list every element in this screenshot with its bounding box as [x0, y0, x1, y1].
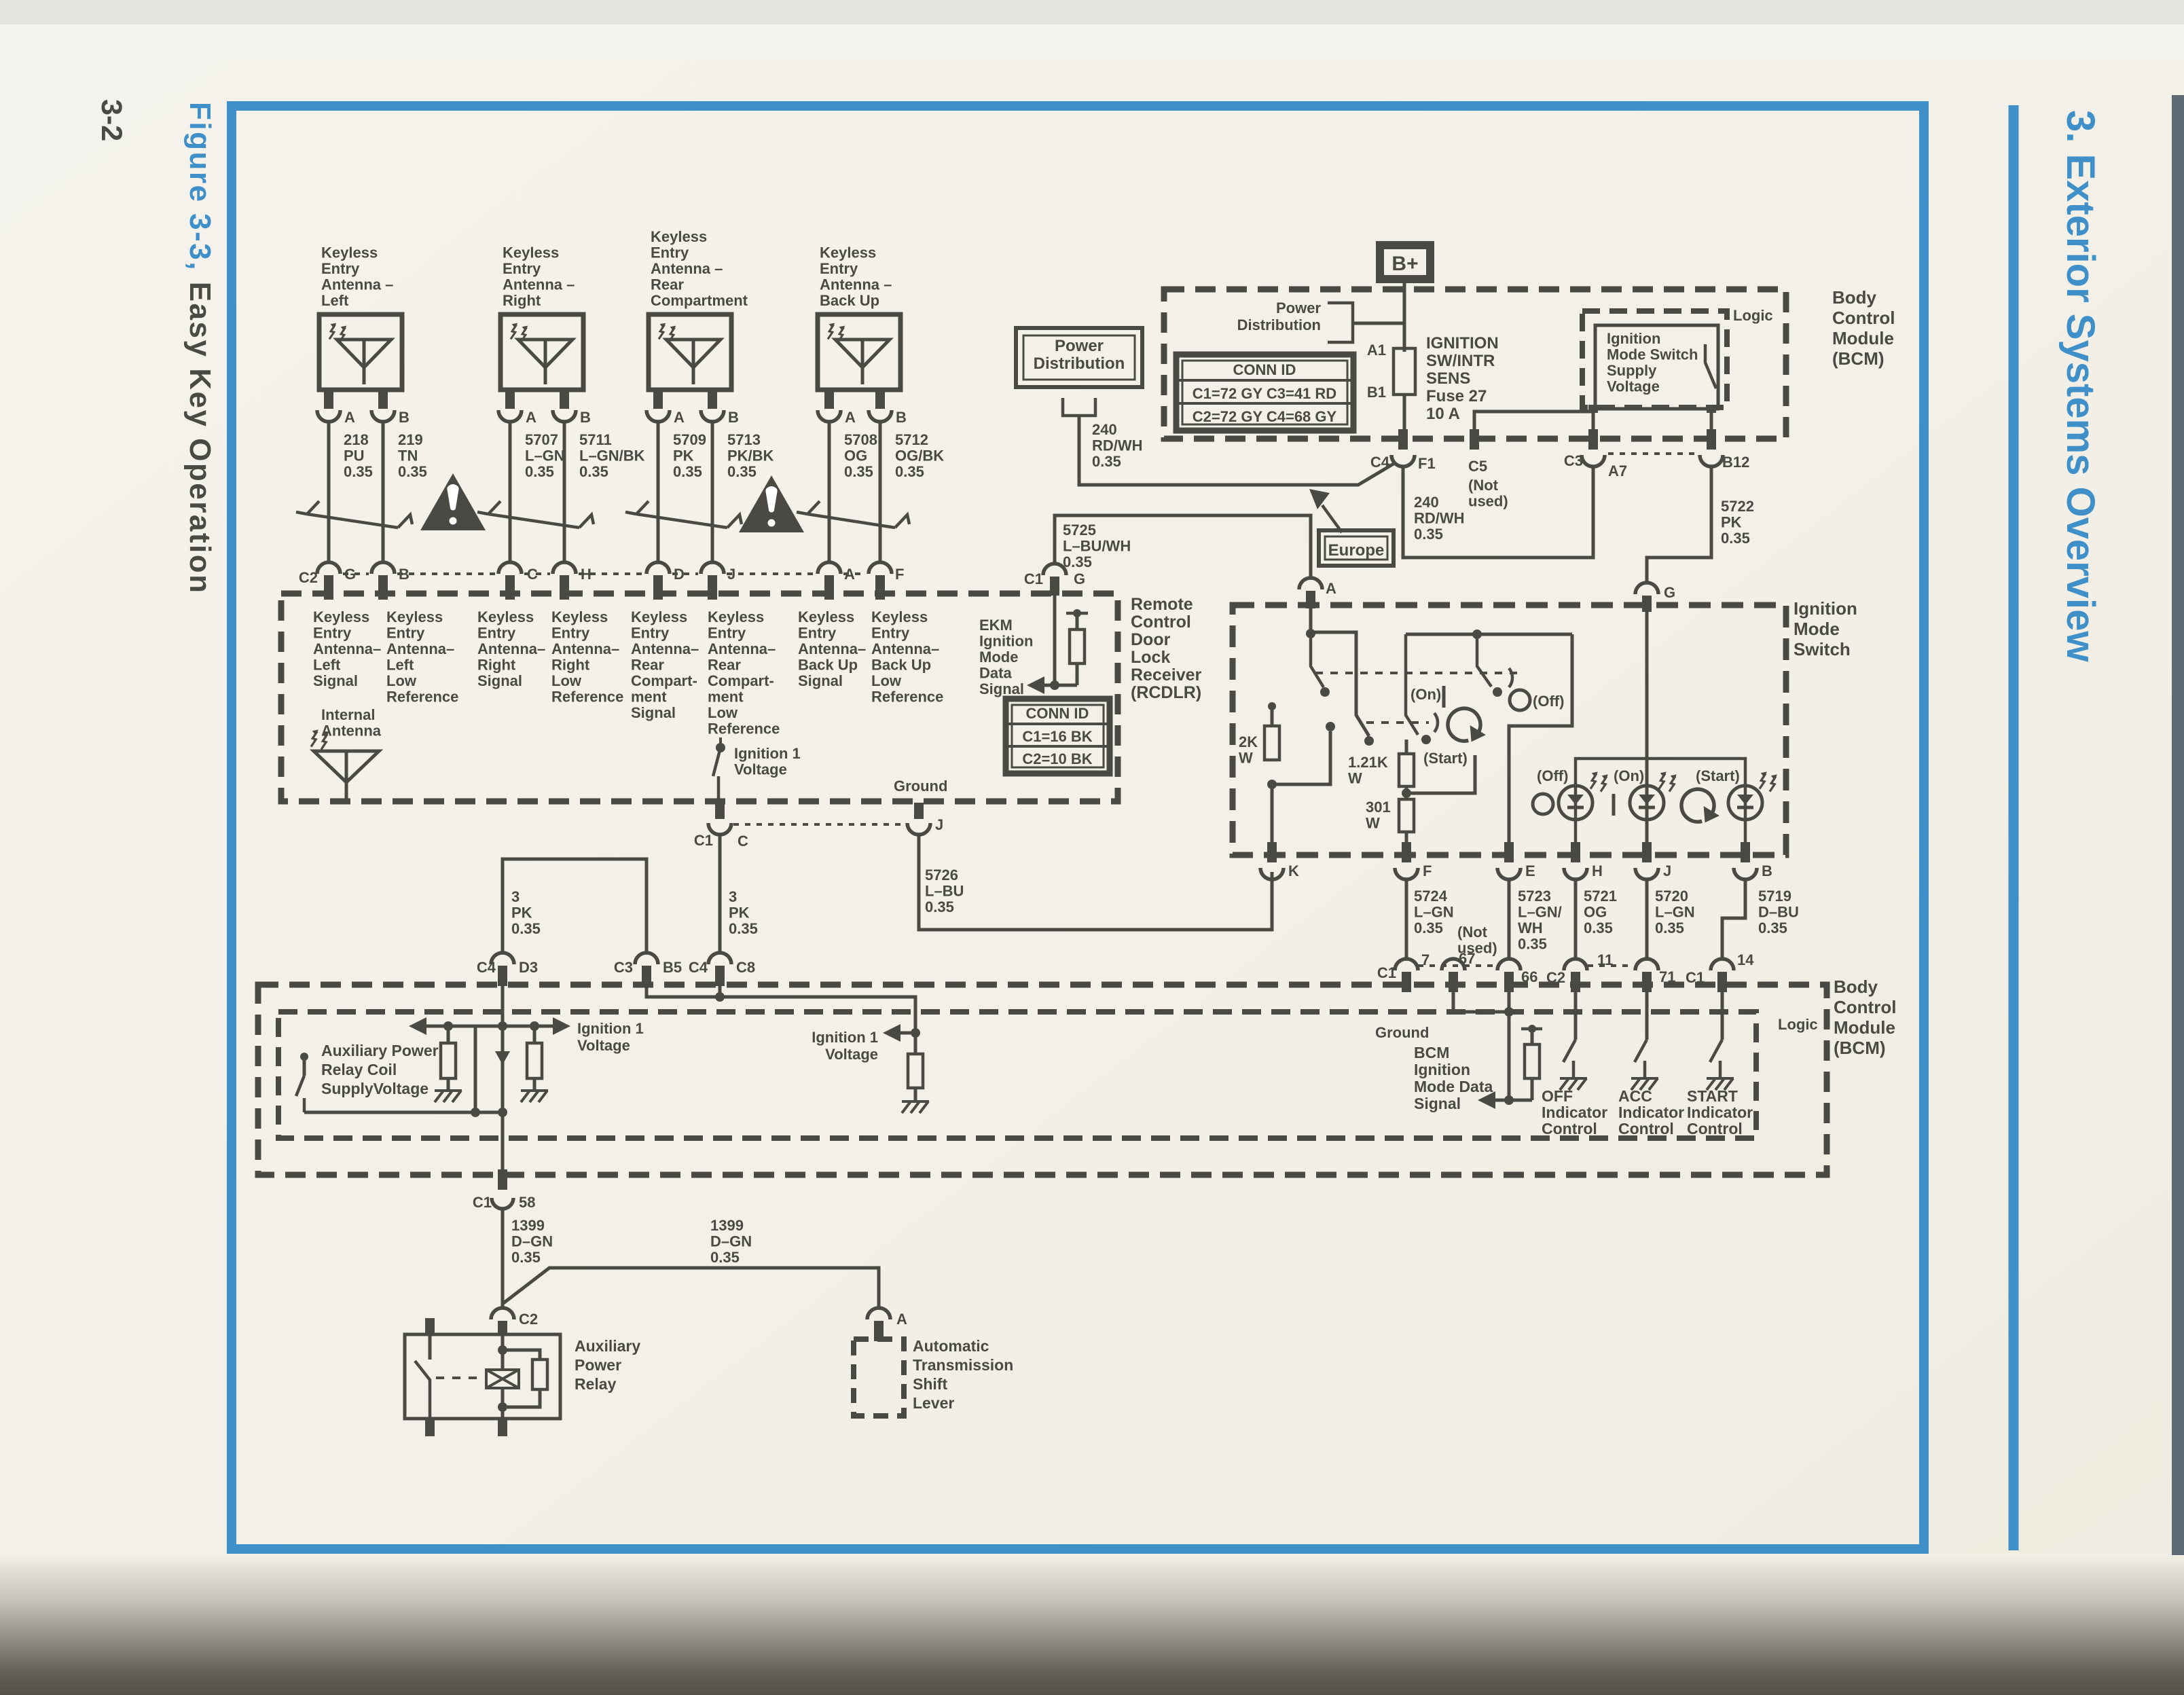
- wire 2K to contact b: [1272, 731, 1330, 784]
- svg-text:C1: C1: [694, 832, 713, 849]
- svg-text:2K: 2K: [1239, 733, 1258, 750]
- svg-text:3. Exterior Systems Overview: 3. Exterior Systems Overview: [2058, 110, 2103, 662]
- antenna symbol 4: [835, 340, 890, 367]
- off switch arm: [1477, 634, 1491, 687]
- svg-text:L–GN: L–GN: [1655, 904, 1695, 921]
- connector C2 pin F: [869, 562, 892, 574]
- antenna 3 connector B: [701, 410, 724, 422]
- svg-text:(Start): (Start): [1696, 767, 1740, 784]
- svg-text:Shift: Shift: [913, 1375, 947, 1393]
- svg-text:0.35: 0.35: [727, 463, 757, 480]
- svg-text:IGNITION: IGNITION: [1426, 334, 1499, 352]
- antenna symbol 2: [518, 340, 572, 367]
- connector 71: [1635, 959, 1658, 970]
- svg-text:0.35: 0.35: [1584, 919, 1613, 936]
- svg-text:Indicator: Indicator: [1542, 1104, 1607, 1121]
- supply voltage switch symbol: [1705, 344, 1716, 388]
- connector H (IMS): [1571, 842, 1580, 862]
- antenna symbol 1: [337, 340, 391, 367]
- lightning bolts antenna 4: [828, 323, 835, 340]
- connector C2 pin C: [498, 562, 522, 574]
- on switch arm: [1406, 634, 1418, 735]
- svg-text:Control: Control: [1131, 613, 1191, 632]
- wire F to 7: [1405, 879, 1408, 959]
- svg-text:Rear: Rear: [651, 276, 684, 293]
- svg-text:C3: C3: [614, 959, 633, 976]
- BCM logic dashed box: [278, 1012, 1756, 1138]
- ACC indicator switch: [1645, 992, 1649, 1040]
- svg-text:Indicator: Indicator: [1687, 1104, 1753, 1121]
- antenna 2 pin B: [560, 390, 569, 409]
- wire A into switch: [1309, 608, 1313, 634]
- (Off) circle: [1510, 690, 1530, 710]
- figure caption (rotated): [183, 102, 217, 594]
- connector 67: [1442, 959, 1465, 970]
- svg-text:Lock: Lock: [1131, 648, 1170, 667]
- internal antenna symbol: [314, 751, 379, 782]
- svg-text:BCM: BCM: [1414, 1044, 1449, 1061]
- svg-text:5713: 5713: [727, 431, 761, 448]
- svg-text:Keyless: Keyless: [798, 608, 854, 625]
- E branch wire: [1509, 634, 1572, 849]
- svg-text:3: 3: [511, 888, 520, 905]
- svg-text:0.35: 0.35: [673, 463, 702, 480]
- BCM power dashed box: [1164, 289, 1786, 439]
- svg-text:Antenna–: Antenna–: [551, 640, 619, 657]
- wire 5725: [1055, 515, 1311, 578]
- svg-text:SupplyVoltage: SupplyVoltage: [321, 1080, 429, 1097]
- antenna 2 pin A: [505, 390, 515, 409]
- on bar symbol: [1612, 794, 1616, 816]
- connector C2 pin H: [553, 562, 576, 574]
- svg-text:Ignition: Ignition: [1607, 330, 1660, 347]
- svg-text:A: A: [344, 409, 355, 426]
- wire 1399 main: [501, 1209, 505, 1307]
- svg-text:RD/WH: RD/WH: [1414, 510, 1465, 527]
- wire 67 jog: [1453, 992, 1509, 1012]
- svg-text:Module: Module: [1834, 1017, 1895, 1038]
- svg-text:(BCM): (BCM): [1834, 1038, 1886, 1058]
- svg-text:B: B: [580, 409, 591, 426]
- connector C4 F1: [1398, 429, 1408, 450]
- connector J (RCDLR ground): [914, 803, 924, 819]
- svg-text:PK/BK: PK/BK: [727, 448, 774, 464]
- CONN ID table (BCM): [1176, 354, 1353, 431]
- svg-text:Antenna –: Antenna –: [820, 276, 892, 293]
- wire antenna 3 A: [657, 422, 660, 562]
- connector A (IMS): [1299, 578, 1322, 589]
- svg-text:Door: Door: [1131, 630, 1171, 649]
- B+ feed wire: [1403, 283, 1406, 348]
- corner wire to aux net: [474, 1026, 477, 1112]
- svg-text:Signal: Signal: [798, 672, 843, 689]
- OFF indicator LED: [1559, 786, 1592, 820]
- svg-text:Antenna–: Antenna–: [708, 640, 776, 657]
- svg-text:Remote: Remote: [1131, 595, 1193, 614]
- svg-text:used): used): [1468, 493, 1508, 510]
- svg-text:Signal: Signal: [1414, 1095, 1461, 1112]
- svg-text:Entry: Entry: [386, 625, 425, 642]
- svg-text:Low: Low: [708, 704, 738, 721]
- svg-text:Logic: Logic: [1778, 1016, 1818, 1033]
- svg-text:Control: Control: [1542, 1120, 1597, 1137]
- keyless entry antenna 4 box: [818, 314, 900, 390]
- svg-text:0.35: 0.35: [895, 463, 924, 480]
- svg-text:0.35: 0.35: [729, 920, 758, 937]
- fuse 27 symbol: [1394, 348, 1415, 395]
- svg-text:Relay: Relay: [575, 1375, 617, 1393]
- europe flag box: [1319, 530, 1394, 566]
- ground run B5/C8: [647, 986, 915, 1033]
- START indicator switch: [1721, 992, 1724, 1040]
- svg-text:Antenna–: Antenna–: [631, 640, 699, 657]
- svg-text:Mode Data: Mode Data: [1414, 1078, 1493, 1095]
- svg-text:W: W: [1348, 770, 1362, 787]
- ignition 1 voltage node right: [911, 1028, 920, 1038]
- svg-text:Compart-: Compart-: [631, 672, 697, 689]
- svg-text:L–BU/WH: L–BU/WH: [1063, 538, 1131, 555]
- svg-text:Control: Control: [1618, 1120, 1674, 1137]
- B+ terminal box: [1380, 245, 1430, 279]
- ignition 1 voltage arrows left: [424, 1025, 503, 1028]
- supply voltage box pins: [1588, 405, 1598, 413]
- svg-text:Antenna–: Antenna–: [313, 640, 381, 657]
- bolts on LED: [1659, 771, 1667, 788]
- 2K W resistor: [1268, 702, 1276, 710]
- internal antenna bolts: [311, 729, 318, 746]
- antenna 4 pin A: [824, 390, 834, 409]
- svg-text:PK: PK: [673, 448, 694, 464]
- svg-text:B: B: [728, 409, 739, 426]
- svg-text:Voltage: Voltage: [734, 761, 787, 778]
- svg-text:B: B: [1762, 862, 1772, 879]
- svg-text:Relay Coil: Relay Coil: [321, 1061, 397, 1078]
- svg-text:PU: PU: [344, 448, 365, 464]
- svg-text:240: 240: [1092, 421, 1117, 438]
- svg-text:SW/INTR: SW/INTR: [1426, 352, 1495, 370]
- svg-text:240: 240: [1414, 494, 1439, 511]
- relay coil: [501, 1336, 505, 1370]
- svg-text:Mode: Mode: [979, 649, 1018, 666]
- svg-text:C2: C2: [519, 1311, 538, 1328]
- svg-text:Antenna: Antenna: [321, 723, 382, 740]
- svg-text:Reference: Reference: [386, 689, 458, 706]
- svg-text:CONN ID: CONN ID: [1026, 705, 1089, 722]
- svg-text:(Off): (Off): [1537, 767, 1568, 784]
- svg-text:Ground: Ground: [894, 778, 947, 795]
- resistor left: [447, 1026, 450, 1043]
- antenna 1 pin A: [324, 390, 333, 409]
- svg-text:Keyless: Keyless: [313, 608, 369, 625]
- G wire through cluster: [1645, 612, 1649, 849]
- svg-text:F: F: [895, 566, 904, 583]
- svg-text:PK: PK: [1721, 514, 1742, 531]
- svg-text:OG/BK: OG/BK: [895, 448, 944, 464]
- svg-text:0.35: 0.35: [1721, 530, 1750, 547]
- svg-text:Keyless: Keyless: [631, 608, 687, 625]
- europe arrow: [1322, 505, 1342, 532]
- svg-text:Entry: Entry: [503, 260, 541, 277]
- svg-text:5724: 5724: [1414, 888, 1448, 905]
- svg-text:Entry: Entry: [708, 625, 746, 642]
- svg-text:Ground: Ground: [1375, 1024, 1429, 1041]
- svg-text:Entry: Entry: [551, 625, 590, 642]
- wire F1 to A7 loop: [1403, 468, 1593, 558]
- svg-text:Auxiliary: Auxiliary: [575, 1337, 640, 1355]
- svg-text:Antenna–: Antenna–: [798, 640, 866, 657]
- connector C2 pin D: [647, 562, 670, 574]
- connector C2 pin B: [371, 562, 395, 574]
- EKM pull-up resistor: [1066, 612, 1088, 615]
- svg-text:Auxiliary Power: Auxiliary Power: [321, 1042, 439, 1059]
- logic dashed box (power): [1582, 311, 1727, 407]
- svg-text:Signal: Signal: [477, 672, 522, 689]
- svg-text:TN: TN: [398, 448, 418, 464]
- svg-text:K: K: [1288, 862, 1299, 879]
- dotted link C to J: [733, 823, 905, 826]
- svg-text:Entry: Entry: [321, 260, 360, 277]
- svg-text:Voltage: Voltage: [1607, 378, 1660, 395]
- off contact hook: [1509, 668, 1512, 687]
- svg-text:Antenna–: Antenna–: [386, 640, 454, 657]
- contact dot off: [1493, 687, 1502, 697]
- svg-text:Keyless: Keyless: [708, 608, 764, 625]
- svg-text:H: H: [581, 566, 591, 583]
- svg-text:0.35: 0.35: [710, 1249, 740, 1266]
- svg-text:Entry: Entry: [871, 625, 910, 642]
- svg-text:Keyless: Keyless: [321, 244, 378, 261]
- svg-text:Keyless: Keyless: [477, 608, 534, 625]
- section title (rotated blue): [2058, 110, 2103, 662]
- contact dot b: [1326, 722, 1335, 731]
- keyless entry antenna 1 box: [319, 314, 402, 390]
- start rotate symbol (LED row): [1681, 789, 1714, 822]
- svg-text:Keyless: Keyless: [386, 608, 443, 625]
- svg-text:Control: Control: [1832, 308, 1895, 328]
- svg-text:WH: WH: [1518, 919, 1543, 936]
- svg-text:Signal: Signal: [631, 704, 676, 721]
- svg-text:Switch: Switch: [1794, 639, 1851, 659]
- antenna 1 pin B: [378, 390, 388, 409]
- svg-text:C: C: [738, 833, 748, 850]
- wire antenna 2 A: [509, 422, 512, 562]
- svg-text:Voltage: Voltage: [577, 1037, 630, 1054]
- svg-text:Low: Low: [386, 672, 417, 689]
- svg-text:Power: Power: [1276, 299, 1321, 316]
- ground symbol middle: [521, 1091, 548, 1102]
- svg-text:(RCDLR): (RCDLR): [1131, 683, 1201, 702]
- svg-text:Right: Right: [551, 657, 590, 674]
- wire antenna 4 A: [828, 422, 831, 562]
- svg-text:OFF: OFF: [1542, 1087, 1573, 1105]
- svg-text:C1: C1: [1377, 964, 1396, 981]
- svg-text:F1: F1: [1418, 455, 1436, 472]
- power distribution bracket: [1328, 303, 1353, 342]
- pull resistor right: [914, 1033, 917, 1054]
- connector C3 A7: [1588, 429, 1598, 450]
- power distribution bottom bracket: [1063, 398, 1095, 416]
- antenna symbol 3: [666, 340, 721, 367]
- relay switch: [429, 1336, 432, 1360]
- svg-text:L–GN: L–GN: [525, 448, 565, 464]
- svg-text:H: H: [1592, 862, 1603, 879]
- svg-text:CONN ID: CONN ID: [1233, 361, 1296, 378]
- svg-text:58: 58: [519, 1194, 535, 1211]
- antenna 1 connector A: [317, 410, 340, 422]
- svg-text:Reference: Reference: [551, 689, 623, 706]
- svg-text:0.35: 0.35: [925, 898, 954, 915]
- svg-text:B12: B12: [1722, 454, 1749, 471]
- svg-text:C2=10 BK: C2=10 BK: [1022, 750, 1092, 767]
- svg-text:Mode: Mode: [1794, 619, 1840, 639]
- svg-text:Figure 3-3, Easy Key Operation: Figure 3-3, Easy Key Operation: [183, 102, 217, 594]
- svg-text:A: A: [674, 409, 685, 426]
- svg-text:Left: Left: [321, 292, 349, 309]
- twisted pair marker 2: [488, 514, 579, 528]
- svg-text:0.35: 0.35: [398, 463, 427, 480]
- svg-text:Mode Switch: Mode Switch: [1607, 346, 1698, 363]
- switch branch rail 1: [1311, 632, 1369, 736]
- svg-text:L–GN/: L–GN/: [1518, 904, 1562, 921]
- svg-text:A: A: [845, 409, 856, 426]
- svg-text:RD/WH: RD/WH: [1092, 437, 1143, 454]
- connector C2 (relay): [491, 1308, 514, 1319]
- svg-text:PK: PK: [511, 905, 532, 922]
- svg-text:Internal: Internal: [321, 706, 375, 723]
- svg-text:5726: 5726: [925, 867, 958, 883]
- svg-text:B: B: [399, 566, 409, 583]
- wire C to C8: [718, 835, 722, 953]
- svg-text:SENS: SENS: [1426, 369, 1470, 388]
- svg-text:Compartment: Compartment: [651, 292, 748, 309]
- svg-text:PK: PK: [729, 905, 750, 922]
- wire B12 to G: [1647, 467, 1711, 583]
- start contact hook: [1434, 713, 1438, 732]
- svg-text:START: START: [1687, 1087, 1738, 1105]
- svg-text:Signal: Signal: [979, 680, 1024, 697]
- svg-text:Distribution: Distribution: [1034, 354, 1125, 373]
- twisted pair marker 3: [636, 514, 727, 528]
- svg-text:5707: 5707: [525, 431, 558, 448]
- svg-text:0.35: 0.35: [579, 463, 608, 480]
- svg-text:Supply: Supply: [1607, 362, 1657, 379]
- svg-text:Right: Right: [503, 292, 541, 309]
- svg-text:218: 218: [344, 431, 369, 448]
- svg-text:10 A: 10 A: [1426, 405, 1460, 423]
- svg-text:Keyless: Keyless: [651, 228, 707, 245]
- wire E to 66: [1508, 879, 1511, 959]
- svg-text:A: A: [896, 1311, 907, 1328]
- svg-text:A: A: [526, 409, 536, 426]
- svg-text:C2: C2: [299, 569, 318, 586]
- svg-text:L–GN/BK: L–GN/BK: [579, 448, 645, 464]
- connector C1 58: [492, 1198, 513, 1209]
- D3 wire into BCM: [501, 986, 505, 1112]
- relay pins: [425, 1318, 435, 1336]
- connector A (shift lever): [867, 1308, 890, 1319]
- svg-text:Back Up: Back Up: [798, 657, 858, 674]
- svg-text:Rear: Rear: [708, 657, 741, 674]
- svg-text:W: W: [1366, 815, 1380, 832]
- svg-text:Rear: Rear: [631, 657, 664, 674]
- svg-text:Keyless: Keyless: [871, 608, 928, 625]
- svg-text:Low: Low: [551, 672, 582, 689]
- wire H to 11: [1574, 879, 1578, 959]
- wire B to 14: [1722, 879, 1745, 959]
- svg-text:C1=72 GY C3=41 RD: C1=72 GY C3=41 RD: [1193, 385, 1336, 402]
- svg-text:B+: B+: [1391, 253, 1418, 275]
- svg-text:(On): (On): [1410, 686, 1441, 703]
- connector B (IMS): [1741, 842, 1750, 862]
- relay mech link: [436, 1377, 484, 1379]
- twisted pair marker 4: [807, 514, 895, 528]
- svg-text:B1: B1: [1367, 384, 1386, 401]
- bolts off LED: [1590, 771, 1598, 788]
- connector C2 pin J: [701, 562, 724, 574]
- svg-text:C2=72 GY C4=68 GY: C2=72 GY C4=68 GY: [1193, 408, 1337, 425]
- svg-text:Logic: Logic: [1733, 307, 1773, 324]
- svg-text:Back Up: Back Up: [871, 657, 931, 674]
- svg-text:Receiver: Receiver: [1131, 666, 1202, 685]
- svg-text:0.35: 0.35: [344, 463, 373, 480]
- svg-text:Entry: Entry: [651, 244, 689, 261]
- svg-text:E: E: [1525, 862, 1535, 879]
- svg-text:0.35: 0.35: [1414, 919, 1443, 936]
- svg-text:D: D: [674, 566, 685, 583]
- svg-text:Module: Module: [1832, 328, 1894, 348]
- svg-text:Reference: Reference: [708, 721, 780, 737]
- wire 66 data signal: [1508, 992, 1511, 1100]
- aux supply switch: [300, 1053, 308, 1061]
- svg-text:C1: C1: [1024, 570, 1043, 587]
- svg-text:Antenna–: Antenna–: [477, 640, 545, 657]
- antenna 2 connector B: [553, 410, 576, 422]
- dotted link 11-71: [1588, 964, 1634, 967]
- connector 66: [1497, 959, 1521, 970]
- svg-text:Keyless: Keyless: [551, 608, 608, 625]
- svg-text:Right: Right: [477, 657, 516, 674]
- keyless entry antenna 2 box: [500, 314, 583, 390]
- relay suppression resistor: [503, 1350, 540, 1360]
- lightning bolts antenna 2: [511, 323, 517, 340]
- svg-text:Entry: Entry: [631, 625, 670, 642]
- antenna 3 connector A: [647, 410, 670, 422]
- svg-text:5722: 5722: [1721, 498, 1754, 515]
- OFF indicator switch: [1574, 992, 1578, 1040]
- svg-text:Power: Power: [1055, 337, 1104, 355]
- switch arm 1 (A feed): [1311, 634, 1324, 687]
- svg-text:5720: 5720: [1655, 888, 1688, 905]
- ON indicator LED: [1630, 786, 1664, 820]
- svg-text:0.35: 0.35: [844, 463, 873, 480]
- lightning bolts antenna 3: [659, 323, 666, 340]
- svg-text:A: A: [1326, 580, 1336, 597]
- svg-text:0.35: 0.35: [1758, 919, 1787, 936]
- antenna 4 connector B: [869, 410, 892, 422]
- B12 wire: [1710, 413, 1713, 429]
- svg-text:Distribution: Distribution: [1237, 316, 1321, 333]
- svg-text:Antenna –: Antenna –: [503, 276, 575, 293]
- svg-text:Compart-: Compart-: [708, 672, 774, 689]
- svg-text:Voltage: Voltage: [825, 1046, 878, 1063]
- svg-text:A7: A7: [1608, 462, 1627, 479]
- svg-text:Keyless: Keyless: [503, 244, 559, 261]
- svg-text:Body: Body: [1834, 977, 1878, 997]
- svg-text:5711: 5711: [579, 431, 612, 448]
- start contact wire: [1406, 755, 1475, 793]
- svg-text:C1: C1: [473, 1194, 492, 1211]
- svg-text:Left: Left: [313, 657, 341, 674]
